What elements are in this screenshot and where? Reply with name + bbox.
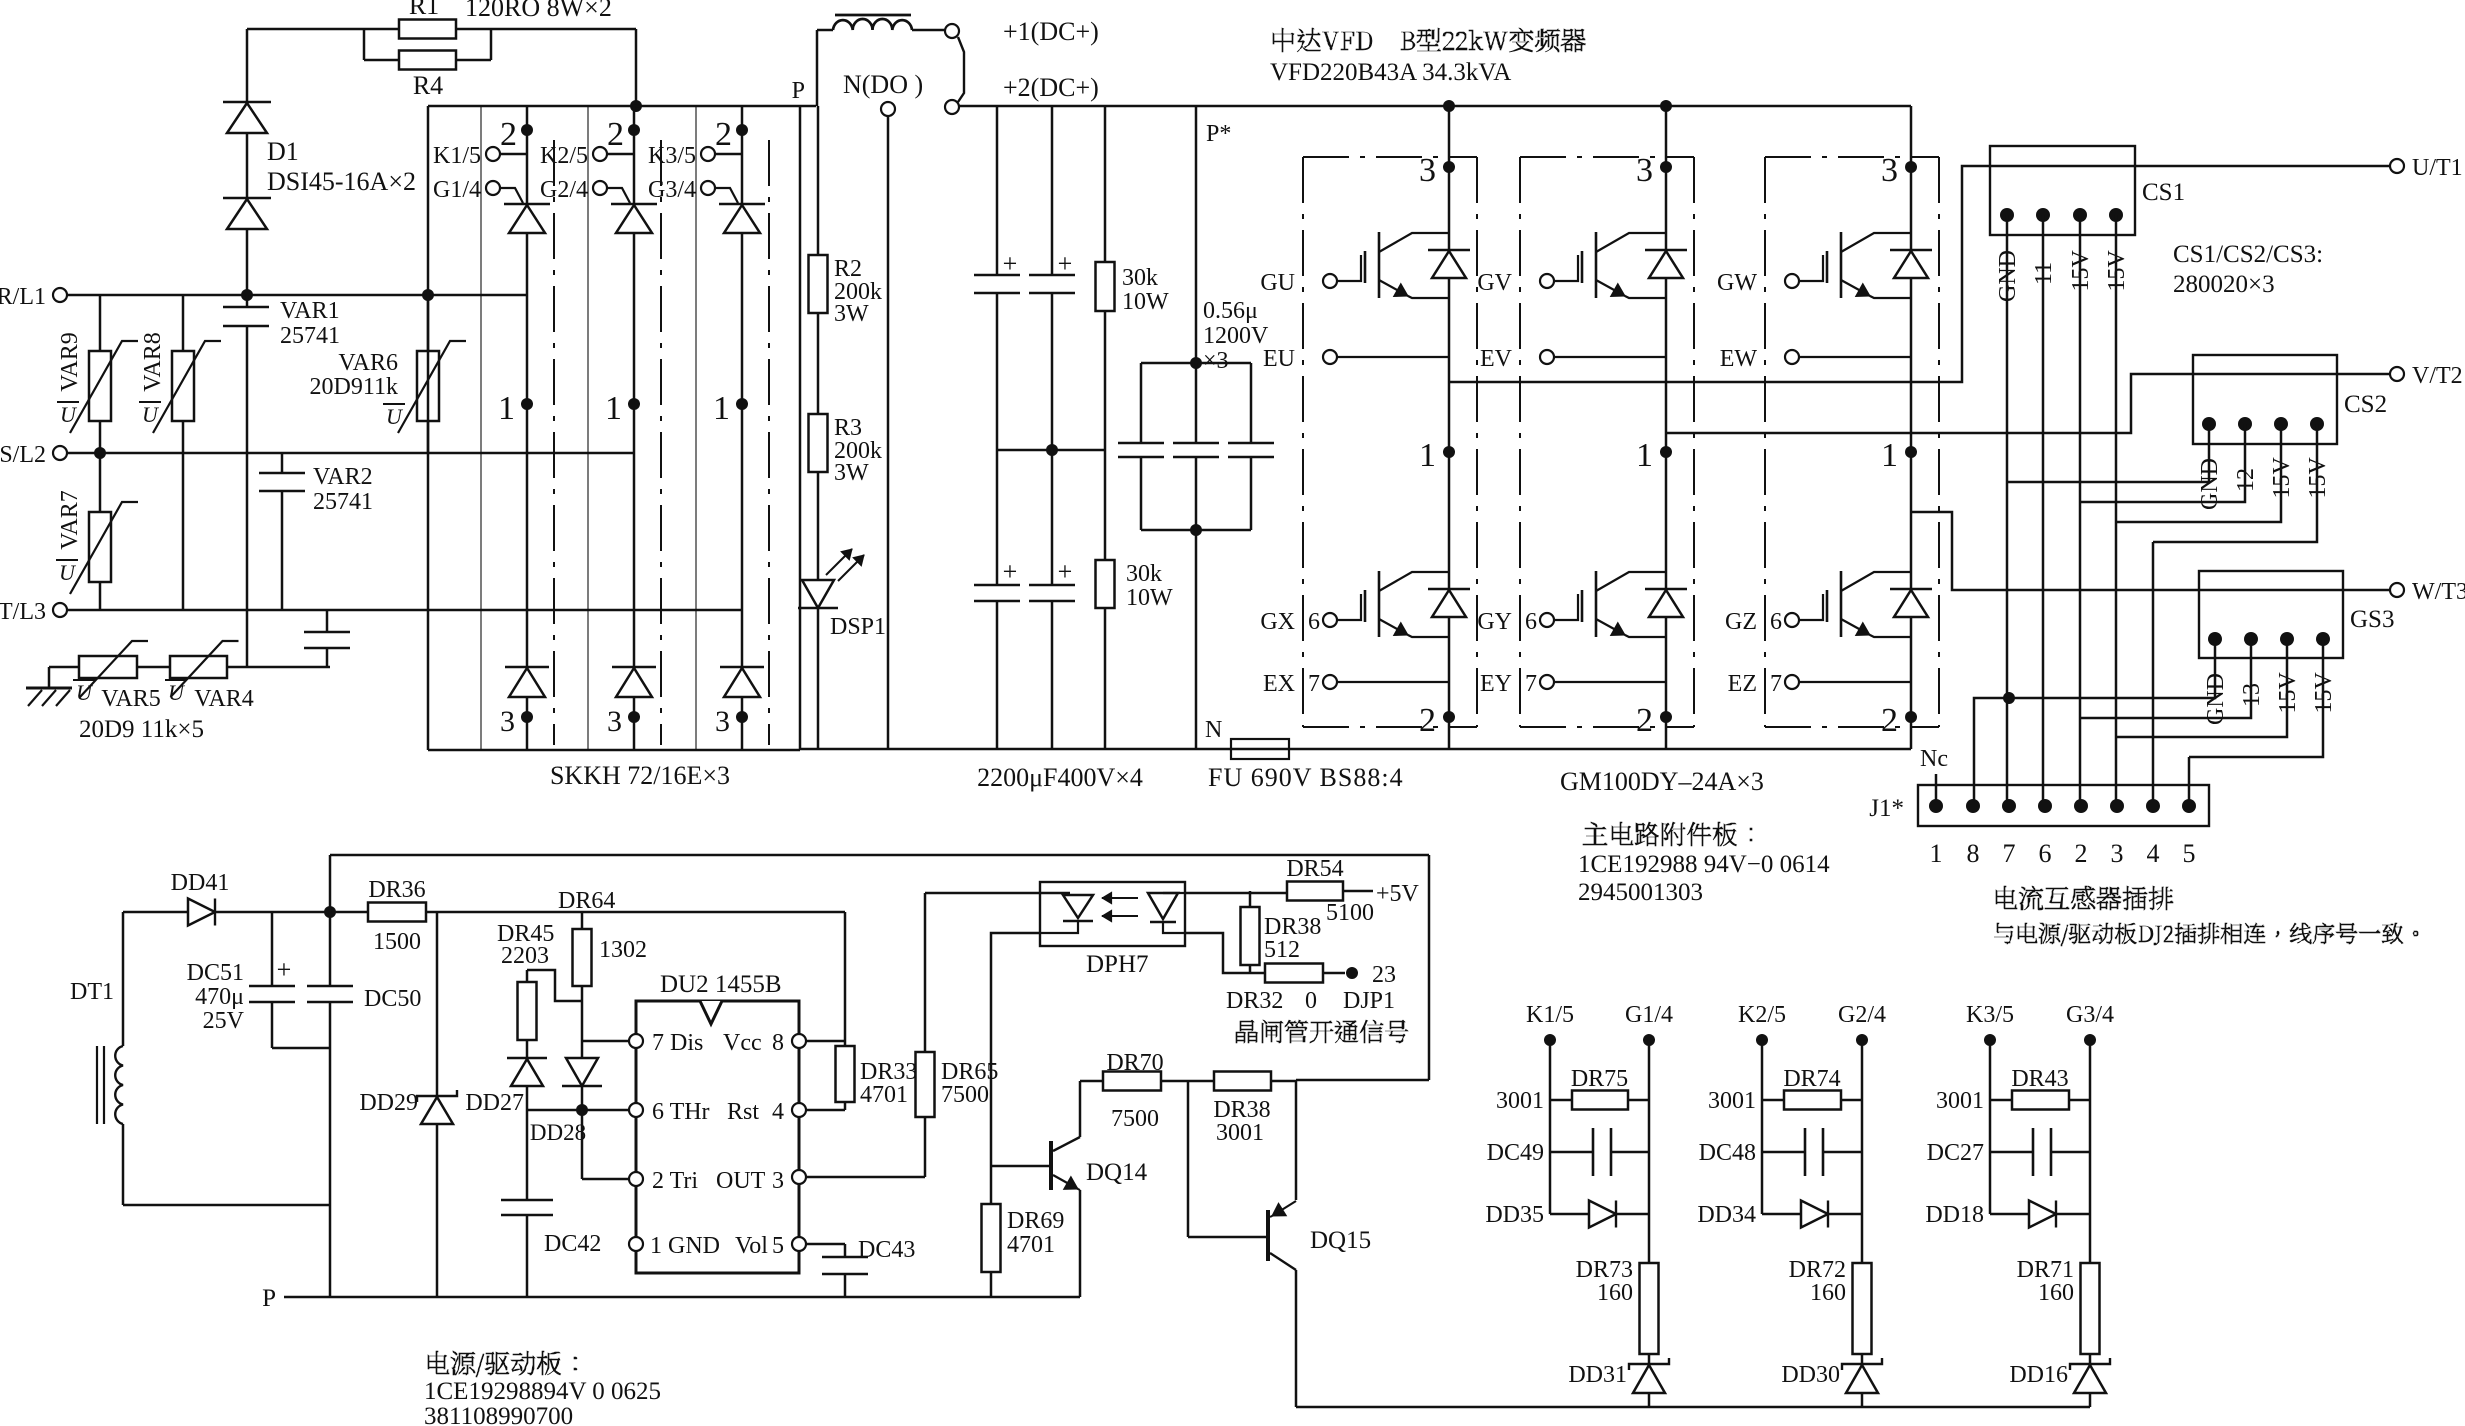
svg-text:Vcc: Vcc <box>723 1030 762 1056</box>
rail module 3 collector <box>1910 106 1913 749</box>
diode D1b <box>246 133 249 198</box>
svg-text:6 THr: 6 THr <box>652 1099 710 1125</box>
diode DD35 <box>1550 1213 1589 1216</box>
svg-text:DC49: DC49 <box>1487 1140 1544 1166</box>
svg-text:1500: 1500 <box>373 929 421 955</box>
svg-text:5: 5 <box>2183 839 2196 868</box>
pin CS1 11 <box>2036 208 2050 222</box>
wire OUT to opto <box>925 892 1040 895</box>
svg-text:23: 23 <box>1372 962 1396 988</box>
pin GS3 −15V <box>2316 632 2330 646</box>
wire CS2 -15V jog a <box>2116 444 2281 522</box>
svg-text:160: 160 <box>1597 1280 1633 1306</box>
svg-text:N(DO ): N(DO ) <box>843 70 923 99</box>
IGBT module 3 box GM100DY <box>1764 157 1766 727</box>
node 3 module 2 <box>1660 161 1672 173</box>
resistor DR73 <box>1640 1263 1659 1354</box>
node 3 column 1 <box>521 711 533 723</box>
svg-text:1CE19298894V 0 0625: 1CE19298894V 0 0625 <box>424 1378 661 1405</box>
svg-text:7: 7 <box>1525 671 1537 697</box>
svg-text:1: 1 <box>1930 839 1943 868</box>
svg-text:DC50: DC50 <box>364 986 421 1012</box>
terminal 23 DJP1 <box>1346 967 1358 979</box>
svg-text:6: 6 <box>1308 609 1320 635</box>
svg-text:20D911k: 20D911k <box>310 374 398 400</box>
svg-text:DD34: DD34 <box>1697 1202 1756 1228</box>
svg-text:P: P <box>792 78 805 104</box>
terminal V/T2 <box>2390 367 2404 381</box>
svg-text:3: 3 <box>2111 839 2124 868</box>
svg-text:6: 6 <box>1770 609 1782 635</box>
diode DD28 <box>566 1058 598 1086</box>
resistor DR38 3001 <box>1214 1072 1271 1091</box>
diode DD18 <box>1990 1213 2029 1216</box>
node GND junction <box>2003 692 2015 704</box>
wire CS1 -15V to J1 pin3 <box>2115 235 2118 806</box>
svg-text:DD29: DD29 <box>359 1090 418 1116</box>
terminal U/T1 <box>2390 159 2404 173</box>
dash-dot separator 1 <box>553 140 555 745</box>
svg-text:DD18: DD18 <box>1925 1202 1984 1228</box>
svg-text:2: 2 <box>1881 702 1898 739</box>
node junction bus/R1 <box>630 100 642 112</box>
wire cap midpoint <box>997 449 1105 452</box>
svg-text:DR74: DR74 <box>1783 1066 1840 1092</box>
svg-text:DR69: DR69 <box>1007 1208 1064 1234</box>
svg-text:2 Tri: 2 Tri <box>652 1168 698 1194</box>
svg-text:GY: GY <box>1477 609 1512 635</box>
svg-text:1: 1 <box>1881 437 1898 474</box>
pin CS2 −15V <box>2310 417 2324 431</box>
svg-text:3W: 3W <box>834 301 869 327</box>
svg-text:U: U <box>386 404 404 429</box>
diode bottom 1 <box>505 666 549 668</box>
wire G column G3/4 <box>2089 1040 2092 1263</box>
resistor DR65 <box>924 893 927 1052</box>
svg-text:DSP1: DSP1 <box>830 614 886 640</box>
IGBT lower GZ <box>1785 613 1799 627</box>
diode DD34 <box>1762 1213 1801 1216</box>
wire DQ14 emitter <box>1079 1190 1082 1297</box>
svg-text:1200V: 1200V <box>1203 323 1269 349</box>
pin J1 3 <box>2110 799 2124 813</box>
svg-text:DQ14: DQ14 <box>1086 1159 1148 1186</box>
svg-text:0: 0 <box>1305 988 1317 1014</box>
svg-text:DJP1: DJP1 <box>1343 988 1395 1014</box>
IGBT lower GY <box>1540 613 1554 627</box>
terminal G1/4 <box>486 181 500 195</box>
zener DD16 <box>2070 1358 2110 1370</box>
svg-text:DR36: DR36 <box>368 877 425 903</box>
svg-text:3001: 3001 <box>1216 1120 1264 1146</box>
svg-text:Rst: Rst <box>727 1099 759 1125</box>
wire V phase output <box>1666 374 2390 433</box>
svg-text:T/L3: T/L3 <box>0 599 46 625</box>
wire DQ14 collector <box>1079 1081 1082 1137</box>
diode DD41 <box>188 899 215 926</box>
svg-text:1302: 1302 <box>599 937 647 963</box>
pin CS1 −15V <box>2073 208 2087 222</box>
svg-text:DR32: DR32 <box>1226 988 1283 1014</box>
svg-text:VAR1: VAR1 <box>280 298 340 324</box>
svg-text:J1*: J1* <box>1869 795 1904 822</box>
terminal K3/5 <box>701 147 715 161</box>
wire board outline <box>330 854 1429 857</box>
wire CS1 11 to J1 pin6 <box>2042 235 2045 806</box>
svg-text:+: + <box>1003 249 1018 278</box>
svg-text:Nc: Nc <box>1920 746 1948 772</box>
svg-text:R1: R1 <box>409 0 439 20</box>
wire U phase output <box>1449 166 2390 382</box>
svg-text:5100: 5100 <box>1326 900 1374 926</box>
bus driver common <box>1296 1406 2090 1409</box>
node 1 module 3 <box>1905 446 1917 458</box>
svg-text:DD35: DD35 <box>1485 1202 1544 1228</box>
varistor VAR4 <box>170 656 227 678</box>
wire opto to base <box>991 933 1040 1166</box>
switch blade DC link <box>958 37 964 102</box>
wire R1/R4 left bracket <box>364 28 399 31</box>
pin GS3 GND <box>2208 632 2222 646</box>
svg-text:DC51: DC51 <box>187 960 244 986</box>
current sensor GS3 <box>2199 571 2343 658</box>
resistor R4 <box>399 51 456 70</box>
transistor DQ14 <box>991 1165 1051 1168</box>
node 2 module 2 <box>1660 711 1672 723</box>
svg-text:+5V: +5V <box>1376 881 1420 907</box>
svg-text:GZ: GZ <box>1725 609 1757 635</box>
svg-text:3: 3 <box>715 705 730 738</box>
wire DQ15 base <box>1187 1081 1190 1237</box>
node 1 module 1 <box>1443 446 1455 458</box>
node 3 module 1 <box>1443 161 1455 173</box>
pin J1 4 <box>2146 799 2160 813</box>
wire Tri link <box>581 1110 584 1179</box>
svg-text:512: 512 <box>1264 937 1300 963</box>
resistor DR45 <box>527 970 582 1001</box>
svg-text:20D9 11k×5: 20D9 11k×5 <box>79 716 204 743</box>
wire R1/R4 right bracket <box>456 28 491 31</box>
svg-text:G1/4: G1/4 <box>1625 1002 1673 1028</box>
capacitor bank C1b <box>1051 106 1054 275</box>
svg-text:DR54: DR54 <box>1286 856 1343 882</box>
IGBT module 2 box GM100DY <box>1519 157 1521 727</box>
current sensor CS1 <box>1990 146 2135 235</box>
node 1 column 1 <box>521 398 533 410</box>
svg-text:EW: EW <box>1720 346 1758 372</box>
node 2 column 1 <box>526 106 529 204</box>
IC DU2 1455B timer <box>636 1001 799 1273</box>
resistor DR32 <box>1265 964 1323 983</box>
svg-text:1 GND: 1 GND <box>650 1233 720 1259</box>
thyristor Q3 <box>719 203 765 205</box>
svg-text:7: 7 <box>1308 671 1320 697</box>
wire supply return <box>123 1204 330 1207</box>
svg-text:DC43: DC43 <box>858 1237 915 1263</box>
IGBT upper GU <box>1323 274 1337 288</box>
svg-text:+: + <box>1058 249 1073 278</box>
thin partition line 3 <box>695 106 697 750</box>
wire K column K2/5 <box>1761 1040 1764 1214</box>
svg-text:1: 1 <box>605 390 622 427</box>
svg-text:7: 7 <box>2003 839 2016 868</box>
wire GS3 -15V jog b <box>2189 658 2323 757</box>
svg-text:381108990700: 381108990700 <box>424 1403 573 1426</box>
svg-text:VAR8: VAR8 <box>140 332 166 392</box>
svg-text:1CE192988 94V−0 0614: 1CE192988 94V−0 0614 <box>1578 851 1830 878</box>
svg-text:VAR2: VAR2 <box>313 464 373 490</box>
thin partition line 1 <box>480 106 482 750</box>
wire opto out <box>1185 933 1265 973</box>
svg-text:DR75: DR75 <box>1571 1066 1628 1092</box>
svg-text:K1/5: K1/5 <box>1526 1002 1574 1028</box>
svg-text:VAR6: VAR6 <box>338 350 398 376</box>
svg-text:DU2 1455B: DU2 1455B <box>660 971 782 998</box>
svg-text:GM100DY–24A×3: GM100DY–24A×3 <box>1560 767 1764 796</box>
svg-text:S/L2: S/L2 <box>0 442 46 468</box>
svg-text:DD30: DD30 <box>1781 1362 1840 1388</box>
svg-text:2200μF400V×4: 2200μF400V×4 <box>977 763 1143 792</box>
IGBT upper GW <box>1785 274 1799 288</box>
svg-text:6: 6 <box>2039 839 2052 868</box>
svg-text:U: U <box>60 402 78 427</box>
resistor DR71 <box>2081 1263 2100 1354</box>
svg-text:DQ15: DQ15 <box>1310 1227 1371 1254</box>
capacitor T-ground <box>326 610 329 632</box>
svg-text:2: 2 <box>607 116 624 153</box>
svg-text:160: 160 <box>2038 1280 2074 1306</box>
wire pin4 Rst <box>806 1109 845 1112</box>
svg-text:EU: EU <box>1263 346 1295 372</box>
svg-text:10W: 10W <box>1122 289 1169 315</box>
svg-text:1: 1 <box>713 390 730 427</box>
svg-text:OUT: OUT <box>716 1168 766 1194</box>
wire ground string <box>49 666 330 669</box>
IGBT upper GV <box>1540 274 1554 288</box>
svg-text:EV: EV <box>1480 346 1513 372</box>
svg-text:3: 3 <box>1881 152 1898 189</box>
svg-text:CS2: CS2 <box>2344 391 2387 418</box>
svg-text:EZ: EZ <box>1728 671 1757 697</box>
svg-text:P*: P* <box>1206 121 1231 147</box>
wire pin7 Dis <box>582 1040 629 1043</box>
rail P bleeder <box>817 106 820 255</box>
varistor VAR8 <box>182 295 185 351</box>
node 2 column 3 <box>741 106 744 204</box>
svg-text:DD41: DD41 <box>171 870 230 896</box>
wire CS2 12 jog <box>2080 444 2245 502</box>
terminal +2(DC+) <box>945 100 959 114</box>
varistor VAR5 <box>79 656 137 678</box>
svg-text:GS3: GS3 <box>2350 606 2394 633</box>
pin CS1 −15V <box>2109 208 2123 222</box>
svg-text:3001: 3001 <box>1496 1088 1544 1114</box>
resistor DR54 <box>1287 882 1343 901</box>
svg-text:+2(DC+): +2(DC+) <box>1003 73 1099 102</box>
fuse FU <box>1231 739 1289 759</box>
node 1 module 2 <box>1660 446 1672 458</box>
wire +5V feed <box>1185 892 1287 895</box>
wire CS2 -15V jog b <box>2153 444 2317 542</box>
terminal K1/5 <box>486 147 500 161</box>
bus P top <box>428 105 816 108</box>
terminal S/L2 <box>53 446 67 460</box>
svg-text:DC27: DC27 <box>1927 1140 1984 1166</box>
wire to J1 pin4 <box>2152 542 2155 806</box>
svg-text:5: 5 <box>772 1233 784 1259</box>
capacitor bank C2b <box>1051 450 1054 585</box>
svg-text:K3/5: K3/5 <box>1966 1002 2014 1028</box>
svg-text:VAR4: VAR4 <box>194 686 254 712</box>
label main circuit board <box>1583 822 1752 846</box>
dash-dot separator 2 <box>660 140 662 745</box>
diode D1a <box>246 29 249 102</box>
capacitor bank C2a <box>996 450 999 585</box>
label inverter type <box>1273 28 1586 52</box>
wire DQ15 emitter <box>1295 1270 1298 1407</box>
svg-text:U: U <box>142 402 160 427</box>
svg-text:K2/5: K2/5 <box>1738 1002 1786 1028</box>
svg-text:7: 7 <box>1770 671 1782 697</box>
capacitor DC42 <box>526 1110 529 1200</box>
capacitor VAR2 <box>281 453 284 473</box>
svg-text:U: U <box>59 560 77 585</box>
wire pin3 OUT <box>806 1176 925 1179</box>
svg-text:25741: 25741 <box>280 323 340 349</box>
capacitor VAR1 <box>246 295 249 307</box>
pin GS3 −15V <box>2280 632 2294 646</box>
varistor VAR6 <box>427 295 430 351</box>
svg-text:EX: EX <box>1263 671 1295 697</box>
svg-text:G3/4: G3/4 <box>2066 1002 2114 1028</box>
svg-text:R4: R4 <box>413 71 443 100</box>
wire GS3 -15V jog a <box>2117 658 2287 737</box>
transistor DQ15 <box>1266 1210 1270 1261</box>
svg-text:R/L1: R/L1 <box>0 284 46 310</box>
svg-text:VAR9: VAR9 <box>57 332 83 392</box>
wire K column K3/5 <box>1989 1040 1992 1214</box>
svg-text:DR70: DR70 <box>1106 1050 1163 1076</box>
svg-text:25741: 25741 <box>313 489 373 515</box>
svg-text:3: 3 <box>1636 152 1653 189</box>
resistor DR69 <box>990 1166 993 1204</box>
IGBT module 1 box GM100DY <box>1302 157 1304 727</box>
svg-text:1: 1 <box>1419 437 1436 474</box>
wire W phase output <box>1911 512 2390 590</box>
svg-text:10W: 10W <box>1126 585 1173 611</box>
wire T/L3 <box>67 609 742 612</box>
svg-text:K3/5: K3/5 <box>648 143 696 169</box>
pin J1 1 <box>1929 799 1943 813</box>
SCR module box SKKH <box>427 106 430 750</box>
capacitor DC43 <box>822 1256 868 1259</box>
pin GS3 13 <box>2244 632 2258 646</box>
node 3 module 3 <box>1905 161 1917 173</box>
wire pin8 Vcc <box>806 1040 845 1043</box>
svg-text:+1(DC+): +1(DC+) <box>1003 17 1099 46</box>
resistor DR75 <box>1550 1099 1572 1102</box>
svg-text:SKKH 72/16E×3: SKKH 72/16E×3 <box>550 761 730 790</box>
svg-text:280020×3: 280020×3 <box>2173 271 2275 298</box>
thyristor Q2 <box>611 203 657 205</box>
wire GS3 GND jog <box>1974 658 2215 806</box>
svg-text:GX: GX <box>1260 609 1295 635</box>
wire G column G2/4 <box>1861 1040 1864 1263</box>
LED DSP1 <box>802 580 834 608</box>
svg-text:7500: 7500 <box>941 1082 989 1108</box>
current sensor CS2 <box>2193 355 2337 444</box>
pin CS1 GND <box>2000 208 2014 222</box>
capacitor DC48 <box>1762 1151 1805 1154</box>
thin partition line 2 <box>587 106 589 750</box>
svg-text:2945001303: 2945001303 <box>1578 879 1703 906</box>
svg-text:470μ: 470μ <box>195 984 244 1010</box>
label current sensor connector <box>1996 886 2173 910</box>
svg-text:DR64: DR64 <box>558 888 615 914</box>
svg-text:7 Dis: 7 Dis <box>652 1030 703 1056</box>
capacitor DC51 <box>271 912 274 986</box>
pin J1 6 <box>2038 799 2052 813</box>
svg-text:CS1: CS1 <box>2142 179 2185 206</box>
svg-text:3: 3 <box>607 705 622 738</box>
wire G column G1/4 <box>1648 1040 1651 1263</box>
svg-text:G2/4: G2/4 <box>1838 1002 1886 1028</box>
svg-text:U/T1: U/T1 <box>2412 155 2463 181</box>
svg-text:8: 8 <box>1967 839 1980 868</box>
svg-text:DSI45-16A×2: DSI45-16A×2 <box>267 167 416 196</box>
wire pin5 Vol to DC43 <box>806 1243 845 1246</box>
svg-text:D1: D1 <box>267 137 299 166</box>
terminal +1(DC+) <box>945 24 959 38</box>
bus DC+ top <box>959 105 1911 108</box>
bus N bottom <box>428 749 800 752</box>
svg-text:4701: 4701 <box>860 1082 908 1108</box>
ground <box>48 667 51 688</box>
svg-text:×3: ×3 <box>1203 348 1229 374</box>
svg-text:DD27: DD27 <box>465 1090 524 1116</box>
pin CS2 −15V <box>2274 417 2288 431</box>
label thyristor trigger signal <box>1236 1020 1408 1043</box>
svg-text:GU: GU <box>1260 270 1295 296</box>
svg-text:2: 2 <box>500 116 517 153</box>
svg-text:2: 2 <box>1636 702 1653 739</box>
svg-text:K1/5: K1/5 <box>433 143 481 169</box>
svg-text:DC42: DC42 <box>544 1231 601 1257</box>
svg-text:4701: 4701 <box>1007 1232 1055 1258</box>
pin CS2 12 <box>2238 417 2252 431</box>
resistor DR38 512 <box>1249 891 1252 907</box>
svg-text:EY: EY <box>1480 671 1512 697</box>
resistor DR74 <box>1762 1099 1784 1102</box>
capacitor DC27 <box>1990 1151 2033 1154</box>
resistor DR36 <box>368 903 426 922</box>
resistor R2 <box>809 255 828 313</box>
svg-text:FU 690V BS88:4: FU 690V BS88:4 <box>1208 763 1404 792</box>
svg-text:6: 6 <box>1525 609 1537 635</box>
wire CS2 GND jog <box>2007 444 2209 482</box>
rail module 1 collector <box>1448 106 1451 749</box>
svg-text:8: 8 <box>772 1030 784 1056</box>
node 2 module 3 <box>1905 711 1917 723</box>
svg-text:4: 4 <box>2147 839 2160 868</box>
resistor DR33 <box>836 1046 855 1102</box>
svg-text:DPH7: DPH7 <box>1086 951 1149 978</box>
zener DD30 <box>1842 1358 1882 1370</box>
resistor DR43 <box>1990 1099 2012 1102</box>
wire K column K1/5 <box>1549 1040 1552 1214</box>
svg-text:2: 2 <box>2075 839 2088 868</box>
terminal G3/4 <box>701 181 715 195</box>
